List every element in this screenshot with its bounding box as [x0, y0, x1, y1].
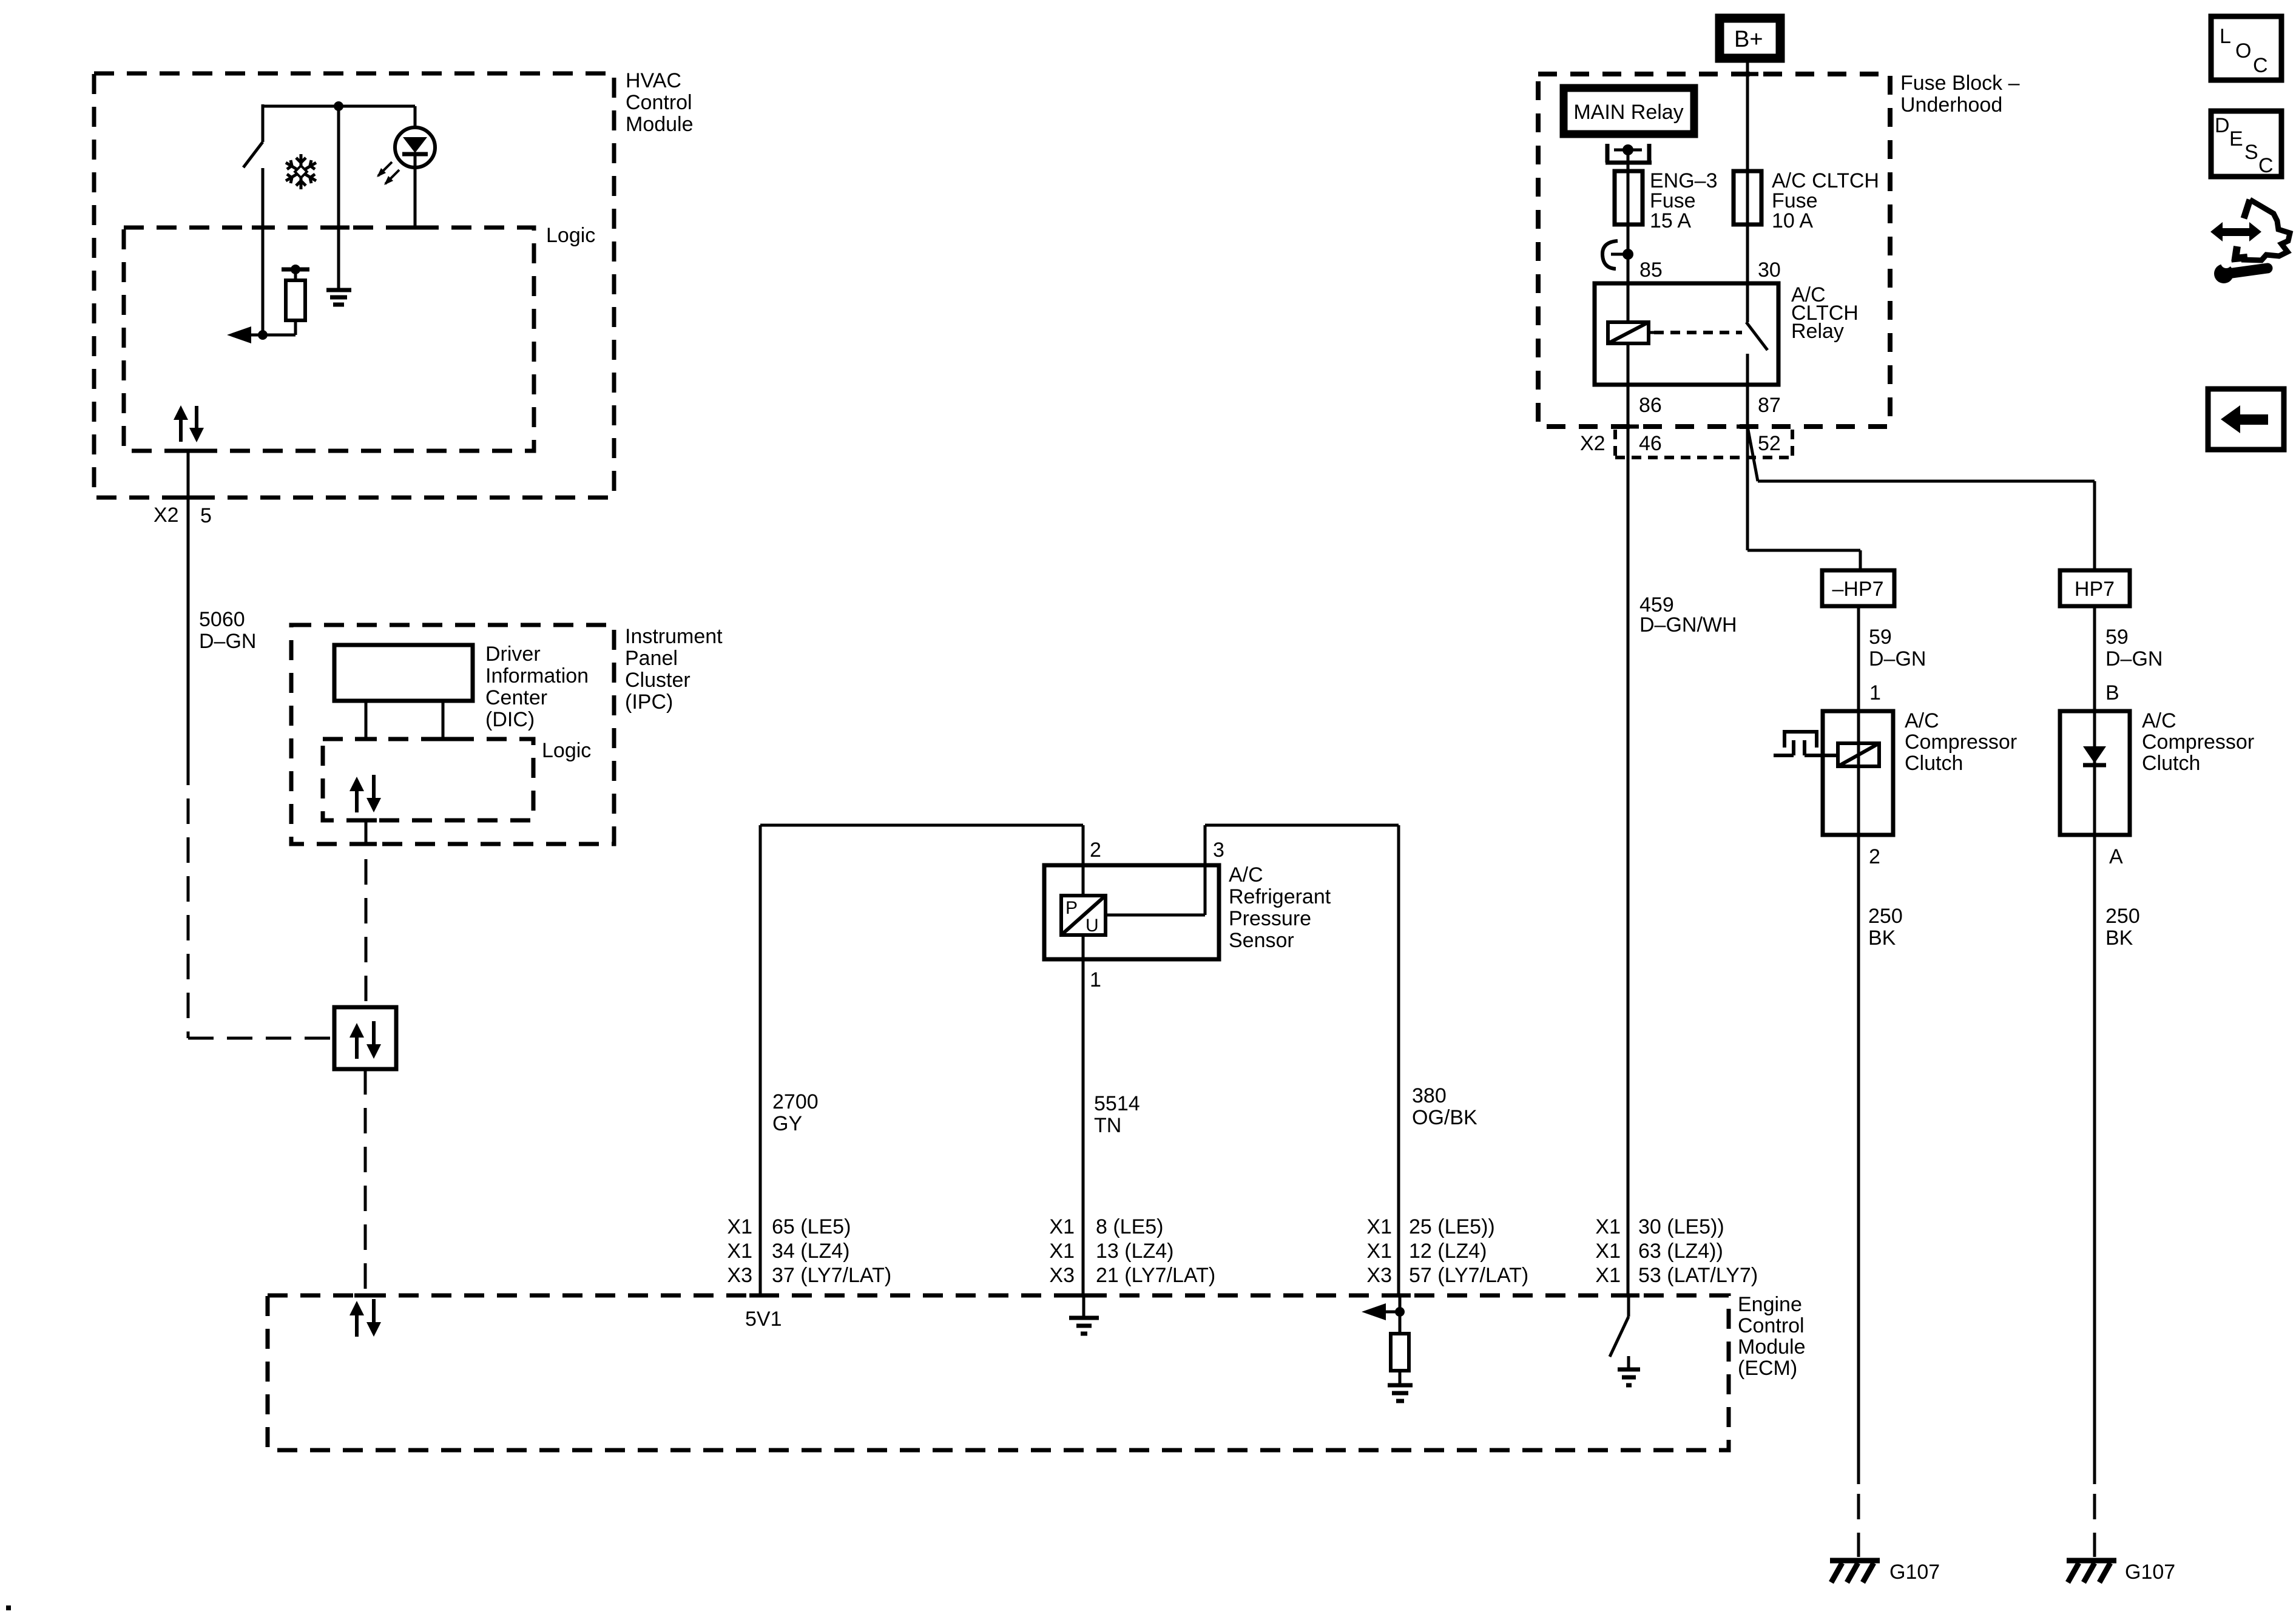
relay switch [1746, 283, 1768, 385]
svg-text:Engine: Engine [1738, 1293, 1802, 1316]
wire 52 to HP7 [1747, 427, 2095, 570]
wire sensor top left [760, 824, 1083, 827]
svg-text:G107: G107 [2125, 1561, 2175, 1584]
serial data gateway box [334, 1007, 396, 1069]
A/C Compressor Clutch diode box [2060, 709, 2254, 835]
svg-text:HVAC: HVAC [626, 69, 681, 92]
svg-text:Instrument: Instrument [625, 625, 723, 648]
svg-text:B+: B+ [1734, 27, 1763, 52]
svg-text:U: U [1086, 916, 1099, 936]
svg-text:A/C: A/C [1229, 863, 1263, 886]
icon adjust/wrench [2210, 200, 2290, 283]
A/C CLTCH Relay box [1595, 283, 1859, 385]
svg-text:(DIC): (DIC) [485, 708, 535, 731]
clutch diode [2083, 746, 2106, 765]
svg-text:D–GN/WH: D–GN/WH [1639, 613, 1737, 636]
pin table X1 30 (LE5)) [1595, 1215, 1758, 1287]
svg-text:TN: TN [1094, 1114, 1121, 1137]
wire resistor to node [250, 334, 295, 337]
svg-text:B: B [2105, 681, 2119, 704]
svg-text:53 (LAT/LY7): 53 (LAT/LY7) [1638, 1264, 1758, 1287]
svg-text:D–GN: D–GN [1869, 647, 1926, 670]
ground (ECM sensor low) [1069, 1295, 1099, 1334]
signal arrow left (HVAC) [227, 326, 251, 343]
svg-text:C: C [2258, 154, 2274, 177]
svg-text:Cluster: Cluster [625, 669, 690, 692]
ticks fuse block bottom [1617, 425, 1758, 429]
serial data arrows (HVAC logic) [174, 405, 204, 442]
relay link (dashed) [1654, 331, 1742, 334]
svg-text:2: 2 [1869, 845, 1880, 868]
svg-text:X1: X1 [1049, 1215, 1075, 1238]
connector -HP7 [1822, 570, 1894, 606]
LED indicator [395, 106, 435, 228]
svg-text:Compressor: Compressor [1905, 731, 2017, 754]
svg-text:10 A: 10 A [1772, 209, 1813, 232]
icon back arrow box [2208, 389, 2284, 450]
wire B+ to fuse [1746, 58, 1749, 322]
svg-text:Clutch: Clutch [2142, 752, 2200, 775]
svg-text:X1: X1 [1595, 1215, 1621, 1238]
svg-text:D–GN: D–GN [2105, 647, 2163, 670]
svg-text:X1: X1 [727, 1240, 752, 1263]
svg-text:(IPC): (IPC) [625, 690, 673, 714]
svg-text:37 (LY7/LAT): 37 (LY7/LAT) [772, 1264, 891, 1287]
svg-text:1: 1 [1869, 681, 1881, 704]
svg-text:5060: 5060 [199, 608, 245, 631]
Engine Control Module (ECM) box [268, 1293, 1806, 1450]
wire serial data (dashed) from IPC logic [365, 820, 368, 1007]
ground G107 right [2067, 1561, 2175, 1584]
HVAC Control Module box [94, 69, 694, 498]
pin table X1 8 (LE5) [1049, 1215, 1215, 1287]
svg-text:Logic: Logic [542, 739, 591, 762]
ground (ECM resistor) [1388, 1385, 1413, 1401]
svg-text:5V1: 5V1 [745, 1308, 782, 1331]
svg-text:HP7: HP7 [2075, 578, 2115, 601]
connector X2 pin 5 labels [154, 504, 212, 527]
svg-text:52: 52 [1758, 432, 1781, 455]
thermal limiter [1774, 732, 1838, 755]
svg-text:34 (LZ4): 34 (LZ4) [772, 1240, 850, 1263]
svg-text:O: O [2235, 39, 2251, 62]
svg-text:2700: 2700 [772, 1090, 819, 1113]
svg-text:65 (LE5): 65 (LE5) [772, 1215, 851, 1238]
A/C Compressor Clutch coil box [1823, 709, 2017, 835]
connector hook (85 feed) [1602, 241, 1633, 269]
svg-text:X3: X3 [1049, 1264, 1075, 1287]
svg-text:12 (LZ4): 12 (LZ4) [1409, 1240, 1487, 1263]
wire X2-5 (5060 D-GN) [188, 451, 334, 1038]
svg-text:1: 1 [1090, 968, 1101, 991]
Driver Information Center (DIC) box [334, 643, 589, 731]
resistor (HVAC pull-up) [282, 265, 309, 335]
svg-text:S: S [2244, 141, 2258, 164]
svg-text:8 (LE5): 8 (LE5) [1096, 1215, 1164, 1238]
svg-text:Refrigerant: Refrigerant [1229, 885, 1331, 908]
svg-text:Underhood: Underhood [1900, 93, 2002, 116]
IPC Logic box [323, 739, 591, 820]
wire serial data (dashed) to ECM [364, 1069, 367, 1295]
fuse ENG-3 15A [1615, 169, 1718, 232]
svg-text:P: P [1065, 898, 1078, 918]
svg-text:57 (LY7/LAT): 57 (LY7/LAT) [1409, 1264, 1528, 1287]
svg-text:25 (LE5)): 25 (LE5)) [1409, 1215, 1495, 1238]
ground G107 left [1830, 1561, 1940, 1584]
signal arrow left (ECM input) [1362, 1303, 1405, 1320]
ticks ECM top crossings [354, 1294, 1639, 1298]
svg-text:GY: GY [772, 1112, 802, 1135]
svg-text:X3: X3 [727, 1264, 752, 1287]
MAIN Relay label box [1564, 88, 1694, 134]
svg-text:Control: Control [626, 91, 692, 114]
svg-text:BK: BK [2105, 927, 2133, 950]
stray period mark [6, 1605, 11, 1610]
pin table X1 65 (LE5) [727, 1215, 891, 1287]
svg-text:X2: X2 [1580, 432, 1606, 455]
svg-text:87: 87 [1758, 394, 1781, 417]
serial data arrows (ECM) [349, 1299, 381, 1337]
A/C Refrigerant Pressure Sensor box [1044, 863, 1331, 959]
wire label 380 OG/BK [1412, 1084, 1477, 1129]
svg-text:250: 250 [1868, 905, 1903, 928]
svg-text:L: L [2220, 25, 2231, 48]
pin table X1 25 (LE5)) [1366, 1215, 1528, 1287]
wire label 5060 D-GN [199, 608, 256, 653]
svg-text:X2: X2 [154, 504, 179, 527]
svg-text:OG/BK: OG/BK [1412, 1106, 1477, 1129]
svg-text:A/C: A/C [1905, 709, 1939, 732]
svg-text:Information: Information [485, 664, 589, 687]
svg-text:86: 86 [1639, 394, 1662, 417]
wire DIC stubs [366, 701, 443, 739]
serial data arrows (IPC logic) [349, 775, 381, 812]
svg-text:Driver: Driver [485, 643, 541, 666]
svg-text:21 (LY7/LAT): 21 (LY7/LAT) [1096, 1264, 1215, 1287]
svg-text:Module: Module [1738, 1335, 1806, 1359]
wire 59 D-GN right [2095, 606, 2163, 711]
svg-text:250: 250 [2105, 905, 2140, 928]
snowflake icon [286, 154, 316, 189]
ground (HVAC internal) [326, 106, 351, 305]
svg-text:59: 59 [2105, 626, 2129, 649]
wire 87 to -HP7 [1747, 385, 1860, 570]
svg-text:X1: X1 [1595, 1240, 1621, 1263]
svg-text:(ECM): (ECM) [1738, 1357, 1797, 1380]
icon LOC box [2211, 16, 2281, 80]
svg-text:E: E [2229, 127, 2243, 150]
svg-text:3: 3 [1213, 839, 1224, 862]
ground (ECM driver) [1618, 1356, 1640, 1385]
svg-text:A/C: A/C [2142, 709, 2176, 732]
svg-text:X1: X1 [1049, 1240, 1075, 1263]
svg-text:D–GN: D–GN [199, 630, 256, 653]
node junction top [334, 101, 343, 111]
svg-text:85: 85 [1639, 258, 1663, 282]
svg-text:Sensor: Sensor [1229, 929, 1294, 952]
svg-text:X1: X1 [1366, 1240, 1392, 1263]
wire 250 BK right [2095, 835, 2140, 1557]
svg-text:2: 2 [1090, 839, 1101, 862]
svg-text:Compressor: Compressor [2142, 731, 2254, 754]
svg-text:Relay: Relay [1791, 320, 1844, 343]
wire 250 BK left [1859, 835, 1903, 1557]
HVAC Logic box [124, 224, 595, 451]
switch S (A/C request) [243, 104, 263, 335]
wire through clutch coil [1857, 711, 1860, 835]
tick marks HVAC crossings [177, 228, 426, 498]
svg-text:A: A [2109, 845, 2123, 868]
wire top bus [263, 105, 415, 108]
svg-text:Module: Module [626, 113, 694, 136]
resistor (ECM pull-up) [1391, 1295, 1409, 1384]
node junction resistor [258, 330, 268, 340]
svg-text:X1: X1 [727, 1215, 752, 1238]
P/U transducer symbol [1061, 896, 1106, 936]
svg-text:X3: X3 [1366, 1264, 1392, 1287]
Instrument Panel Cluster (IPC) box [291, 625, 723, 844]
connector HP7 [2060, 570, 2130, 606]
svg-text:X1: X1 [1366, 1215, 1392, 1238]
LED light arrows [377, 162, 399, 185]
svg-text:Fuse Block –: Fuse Block – [1900, 72, 2020, 95]
wire ENG-3 branch [1627, 152, 1630, 322]
svg-text:5: 5 [200, 504, 212, 527]
svg-text:Control: Control [1738, 1314, 1805, 1337]
svg-text:Center: Center [485, 686, 547, 709]
svg-text:46: 46 [1639, 432, 1662, 455]
svg-text:13 (LZ4): 13 (LZ4) [1096, 1240, 1174, 1263]
wire 59 D-GN left [1859, 606, 1926, 711]
fuse A/C CLTCH 10A [1734, 169, 1879, 232]
svg-text:59: 59 [1869, 626, 1892, 649]
icon DESC box [2211, 111, 2281, 177]
wire label 459 D-GN/WH [1639, 593, 1737, 636]
B+ power symbol [1720, 18, 1780, 58]
svg-text:5514: 5514 [1094, 1092, 1140, 1115]
fuse clip (MAIN relay feed) [1606, 144, 1652, 163]
wire sensor internal to pin 3 [1106, 825, 1205, 915]
svg-text:BK: BK [1868, 927, 1896, 950]
switch (ECM driver) [1610, 1295, 1629, 1357]
tick fuse block top [1737, 72, 1758, 76]
wire coil to ECM (86 / 459 D-GN/WH) [1627, 343, 1630, 1295]
svg-text:C: C [2253, 54, 2268, 77]
svg-text:G107: G107 [1889, 1561, 1940, 1584]
svg-text:Logic: Logic [546, 224, 595, 247]
svg-text:–HP7: –HP7 [1832, 578, 1883, 601]
wire 2700 GY [760, 825, 819, 1295]
svg-text:MAIN Relay: MAIN Relay [1573, 101, 1683, 124]
svg-text:30 (LE5)): 30 (LE5)) [1638, 1215, 1724, 1238]
wire 5514 TN [1083, 935, 1140, 1295]
Fuse Block - Underhood box [1538, 72, 2020, 427]
svg-text:63 (LZ4)): 63 (LZ4)) [1638, 1240, 1723, 1263]
wire sensor top right to 380 OG/BK [1205, 825, 1399, 1295]
svg-text:15 A: 15 A [1650, 209, 1691, 232]
svg-text:D: D [2215, 114, 2230, 137]
wire pin2 internal [1082, 865, 1085, 896]
svg-text:380: 380 [1412, 1084, 1447, 1107]
svg-text:Panel: Panel [625, 647, 678, 670]
relay coil [1608, 322, 1654, 343]
wire through clutch diode [2093, 711, 2096, 835]
svg-text:Clutch: Clutch [1905, 752, 1963, 775]
svg-text:Pressure: Pressure [1229, 907, 1311, 930]
svg-text:X1: X1 [1595, 1264, 1621, 1287]
wire pin 2 stub [1082, 825, 1085, 868]
ticks IPC crossings [355, 739, 454, 844]
svg-text:30: 30 [1758, 258, 1781, 282]
connector X2 row [1580, 430, 1792, 457]
clutch coil [1838, 743, 1879, 766]
